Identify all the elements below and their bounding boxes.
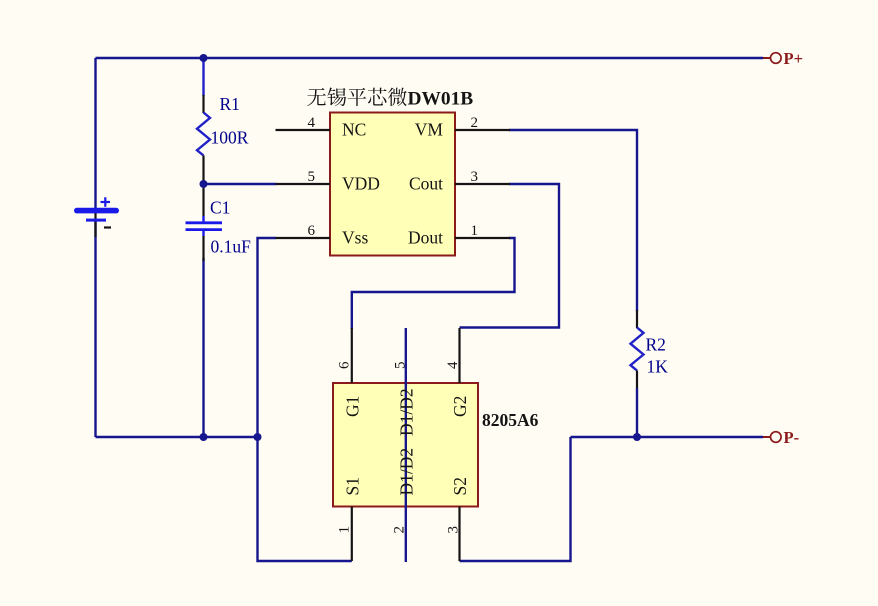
battery BT1: [74, 197, 119, 237]
svg-text:4: 4: [308, 115, 316, 131]
wire left battery vertical: [94, 58, 96, 208]
svg-text:5: 5: [308, 169, 316, 185]
svg-text:6: 6: [308, 223, 316, 239]
U2 pin 3 S2: [446, 477, 471, 561]
svg-text:P+: P+: [784, 49, 803, 68]
svg-text:3: 3: [471, 169, 479, 185]
svg-text:G1: G1: [343, 396, 363, 417]
U2 pin 5 D1/D2 top: [393, 362, 417, 437]
svg-text:2: 2: [392, 526, 408, 534]
U1 pin 1 Dout: [408, 223, 510, 248]
wire bottom-left rail: [96, 436, 258, 438]
wire C1 bottom to rail: [202, 258, 204, 437]
svg-text:D1/D2: D1/D2: [397, 388, 417, 436]
wire VM to R2: [509, 130, 637, 311]
svg-text:NC: NC: [342, 120, 366, 140]
junction VDD / R1 / C1: [200, 180, 208, 188]
junction top rail / R1: [200, 54, 208, 62]
wire S2 to P- rail: [460, 437, 571, 561]
svg-text:2: 2: [471, 115, 479, 131]
IC U2 8205A6 body: [333, 383, 478, 507]
terminal P+: [763, 49, 803, 68]
wire VDD net: [204, 183, 277, 185]
capacitor C1: [186, 188, 252, 261]
junction bottom rail / C1: [200, 433, 208, 441]
svg-text:5: 5: [393, 362, 409, 370]
U2 pin 1 S1: [336, 477, 362, 561]
wire Cout to G2: [460, 184, 560, 328]
svg-text:1: 1: [471, 223, 479, 239]
svg-text:Vss: Vss: [342, 228, 368, 248]
svg-text:R1: R1: [220, 94, 240, 114]
U2 pin 6 G1: [336, 328, 362, 417]
svg-text:S1: S1: [343, 477, 363, 495]
svg-text:6: 6: [336, 361, 352, 369]
wire battery bottom vertical: [94, 221, 96, 437]
svg-text:8205A6: 8205A6: [482, 410, 539, 430]
svg-text:Dout: Dout: [408, 228, 443, 248]
wire Vss net: [258, 238, 352, 561]
wire top rail P+: [96, 57, 764, 59]
svg-text:C1: C1: [210, 198, 230, 218]
wire D1/D2 through 8205A6: [405, 328, 407, 562]
junction bottom rail / Vss column: [254, 433, 262, 441]
svg-text:100R: 100R: [211, 128, 249, 148]
U1 pin 4 NC: [276, 115, 367, 140]
svg-text:3: 3: [446, 526, 462, 534]
U2 pin 4 G2: [445, 328, 470, 417]
svg-text:1: 1: [336, 526, 352, 534]
U1 title 无锡平芯微 (CJK glyph paths): [307, 87, 407, 106]
resistor R1: [197, 94, 249, 184]
U1 pin 6 Vss: [276, 223, 369, 248]
svg-text:4: 4: [445, 361, 461, 369]
svg-text:0.1uF: 0.1uF: [211, 237, 252, 257]
resistor R2: [631, 310, 669, 388]
svg-text:D1/D2: D1/D2: [397, 448, 417, 496]
svg-text:P-: P-: [784, 428, 800, 447]
svg-text:G2: G2: [450, 396, 470, 417]
svg-text:DW01B: DW01B: [408, 89, 474, 110]
U1 pin 5 VDD: [276, 169, 380, 194]
svg-text:VDD: VDD: [342, 174, 380, 194]
terminal P-: [763, 428, 799, 447]
U1 pin 2 VM: [415, 115, 510, 140]
IC U1 DW01B body: [330, 113, 455, 256]
junction P- rail / R2: [633, 433, 641, 441]
wire R1 top lead: [202, 58, 204, 96]
U2 pin 2 D1/D2 bottom: [392, 448, 417, 534]
svg-text:S2: S2: [450, 477, 470, 495]
svg-text:R2: R2: [646, 335, 666, 355]
wire Dout to G1: [352, 238, 515, 329]
svg-text:VM: VM: [415, 120, 444, 140]
wire P- rail: [571, 436, 764, 438]
wire R2 bottom to P- rail: [636, 388, 638, 437]
U1 pin 3 Cout: [409, 169, 510, 194]
svg-text:Cout: Cout: [409, 174, 443, 194]
svg-text:1K: 1K: [647, 357, 669, 377]
